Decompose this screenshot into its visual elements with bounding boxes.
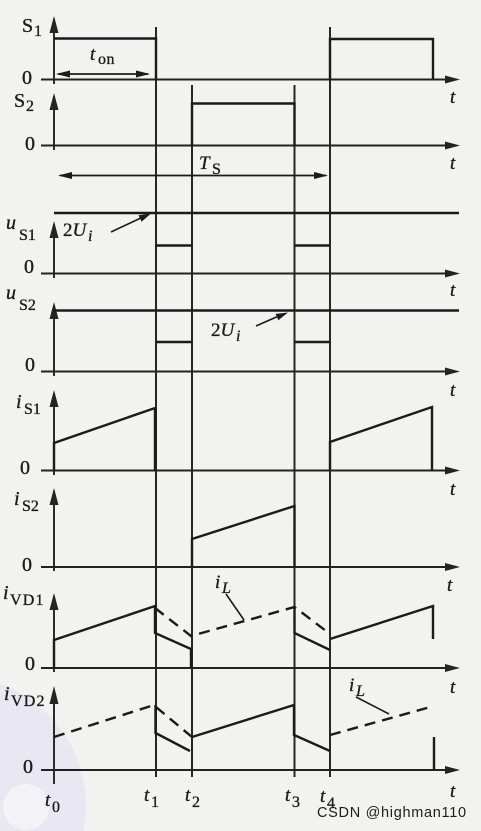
svg-text:t: t: [450, 781, 456, 802]
svg-text:VD2: VD2: [11, 693, 46, 710]
svg-text:t: t: [450, 479, 456, 500]
svg-text:S2: S2: [19, 297, 36, 314]
svg-text:on: on: [98, 51, 115, 68]
svg-text:t: t: [450, 153, 456, 174]
svg-text:L: L: [221, 580, 231, 597]
svg-text:0: 0: [22, 67, 32, 89]
svg-text:0: 0: [23, 756, 33, 778]
svg-text:0: 0: [25, 133, 35, 155]
svg-text:2U: 2U: [211, 320, 236, 341]
svg-text:L: L: [355, 683, 365, 700]
svg-text:t: t: [285, 785, 291, 806]
svg-text:0: 0: [20, 457, 30, 479]
svg-text:i: i: [236, 328, 240, 345]
svg-text:i: i: [349, 675, 354, 696]
svg-text:2U: 2U: [63, 220, 88, 241]
svg-text:t: t: [320, 786, 326, 807]
svg-text:CSDN @highman110: CSDN @highman110: [317, 805, 467, 821]
svg-text:S1: S1: [24, 401, 41, 418]
svg-text:S2: S2: [22, 498, 39, 515]
svg-text:0: 0: [25, 653, 35, 675]
svg-text:t: t: [450, 87, 456, 108]
svg-text:t: t: [450, 280, 456, 301]
svg-text:2: 2: [192, 794, 200, 811]
svg-text:i: i: [3, 582, 9, 604]
svg-text:1: 1: [34, 23, 42, 40]
svg-text:0: 0: [24, 256, 34, 278]
svg-text:t: t: [450, 380, 456, 401]
svg-text:VD1: VD1: [10, 592, 45, 609]
svg-text:i: i: [88, 228, 92, 245]
svg-text:t: t: [90, 44, 96, 65]
svg-text:3: 3: [292, 794, 300, 811]
svg-text:T: T: [199, 153, 211, 174]
svg-text:i: i: [215, 572, 220, 593]
svg-text:S1: S1: [19, 227, 36, 244]
svg-text:1: 1: [151, 794, 159, 811]
svg-text:i: i: [14, 488, 20, 510]
svg-text:0: 0: [22, 554, 32, 576]
svg-text:t: t: [450, 677, 456, 698]
svg-text:0: 0: [52, 799, 60, 816]
svg-text:2: 2: [26, 98, 34, 115]
svg-text:u: u: [6, 212, 16, 234]
svg-text:u: u: [6, 282, 16, 304]
svg-text:S: S: [22, 15, 33, 37]
svg-text:S: S: [212, 161, 221, 178]
svg-text:i: i: [16, 391, 22, 413]
svg-text:i: i: [4, 683, 10, 705]
svg-text:0: 0: [25, 354, 35, 376]
svg-text:t: t: [45, 790, 51, 811]
svg-text:t: t: [185, 785, 191, 806]
svg-text:S: S: [14, 90, 25, 112]
svg-text:t: t: [447, 575, 453, 596]
svg-text:t: t: [144, 785, 150, 806]
